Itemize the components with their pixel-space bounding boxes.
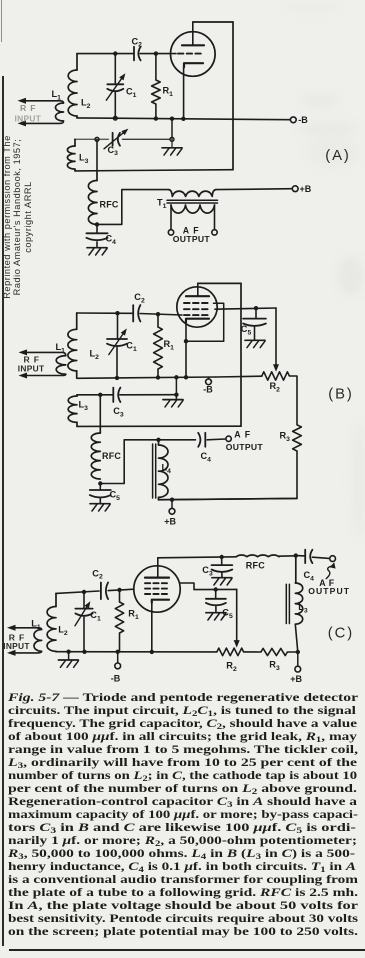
node C1 top (A)	[113, 51, 117, 55]
node C3row-junction (B)	[98, 393, 102, 397]
node C1 bottom (C)	[82, 650, 86, 654]
svg-text:RFC: RFC	[100, 200, 119, 210]
arrowhead RF top (C)	[7, 625, 16, 631]
coil L2 (B)	[68, 329, 77, 371]
node cathode rail (C)	[150, 650, 154, 654]
capacitor C1 variable (A)	[107, 84, 123, 91]
capacitor C4 (A)	[86, 224, 107, 240]
svg-text:INPUT: INPUT	[3, 641, 30, 651]
wire ground rail A	[77, 118, 290, 120]
label L1 (A)	[52, 89, 62, 101]
svg-text:-B: -B	[203, 384, 213, 394]
node +B stub (B)	[170, 498, 174, 502]
svg-text:-B: -B	[298, 115, 308, 125]
pentode tube V3 (circuit C) envelope	[134, 566, 180, 612]
wire L4 bottom row (B)	[159, 498, 298, 499]
label -B (C)	[111, 673, 121, 683]
wire ground rail B	[77, 376, 262, 378]
wire plate drop B	[240, 283, 242, 426]
ground below screen C5 (B)	[245, 327, 265, 348]
label (B)	[328, 386, 353, 402]
wire C1 bottom lead (C)	[83, 617, 85, 652]
pentode V2 screen (dashed)	[184, 308, 211, 310]
svg-text:R2: R2	[226, 661, 237, 673]
wire ground rail C	[56, 651, 217, 653]
label C4 (B)	[201, 451, 212, 463]
label C1 (B)	[126, 341, 137, 353]
pentode V3 plate lead	[157, 558, 159, 578]
arrowhead R2 wiper (B)	[273, 364, 279, 372]
svg-text:A: A	[234, 430, 241, 440]
svg-text:OUTPUT: OUTPUT	[173, 234, 211, 244]
resistor R1 (C)	[115, 602, 123, 633]
svg-text:R3: R3	[280, 431, 291, 443]
svg-text:L3: L3	[79, 400, 89, 412]
terminal AF output right (A)	[212, 230, 217, 235]
arrow of C1 (A)	[106, 73, 125, 100]
label INPUT (A)	[15, 114, 42, 124]
terminal +B (A)	[292, 186, 298, 192]
label +B (A)	[300, 184, 312, 194]
capacitor C4 (B)	[198, 433, 205, 447]
ground chassis (A right)	[162, 139, 182, 155]
node R1 top (B)	[156, 312, 160, 316]
pentode V2 plate	[186, 295, 209, 297]
svg-text:L2: L2	[58, 625, 68, 637]
transformer T1 primary (A)	[169, 190, 217, 197]
svg-text:C1: C1	[126, 87, 137, 99]
node RFC bottom (B)	[98, 481, 102, 485]
label RFC (C)	[246, 560, 265, 570]
svg-text:RFC: RFC	[102, 451, 121, 461]
node C5 top (C)	[214, 587, 218, 591]
wire R2 wiper drop (B)	[275, 308, 277, 367]
node C3 row gnd junction (B)	[174, 393, 178, 397]
label OUTPUT (C)	[308, 586, 350, 596]
wire cathode drop A	[183, 67, 185, 119]
node ring C3 row right (A)	[170, 137, 174, 141]
wire C1 lead (A)	[114, 54, 116, 85]
label RFC (B)	[102, 451, 121, 461]
ground chassis (B mid)	[163, 395, 183, 407]
arrow of C1 (B)	[109, 328, 127, 354]
wire grid row B	[77, 313, 182, 315]
wire R1 top lead (A)	[155, 54, 157, 80]
wire R1 bottom lead (C)	[119, 633, 121, 652]
label OUTPUT (A)	[173, 234, 211, 244]
scan smudge top right	[298, 121, 360, 137]
arrowhead RF bottom (C)	[7, 650, 16, 656]
wire R1 bottom lead (A)	[155, 104, 157, 119]
svg-text:C5: C5	[222, 608, 233, 620]
coil L2 (C) bottom lead	[55, 650, 57, 652]
wire RF input top (C)	[15, 628, 42, 630]
pentode V3 suppressor (dashed)	[145, 582, 170, 584]
svg-text:C1: C1	[126, 341, 137, 353]
wire RF input top (B)	[27, 352, 66, 355]
triode tube V1 (circuit A) envelope	[171, 32, 216, 77]
capacitor C5 screen bypass (B)	[243, 308, 266, 326]
node gnd stub (B)	[174, 375, 178, 379]
label L1 (C)	[31, 619, 41, 631]
svg-text:+B: +B	[290, 674, 302, 684]
pentode V3 screen (dashed)	[145, 588, 170, 590]
wire plate drop A	[232, 22, 234, 170]
coil L3 (A)	[67, 146, 75, 169]
svg-text:F: F	[245, 430, 251, 440]
potentiometer R2 (B)	[262, 372, 290, 380]
coil L2 (B) top lead	[76, 313, 78, 329]
wire stub rail to gnd (B)	[175, 377, 177, 394]
node R1 top (C)	[117, 588, 121, 592]
resistor R3 (B)	[293, 425, 302, 451]
wire C1 bottom lead (A)	[114, 92, 116, 118]
wire to +B (A)	[216, 188, 292, 191]
label OUTPUT (B)	[226, 442, 264, 452]
resistor R3 (C)	[261, 648, 288, 655]
node C4-L3 junction (C)	[294, 553, 298, 557]
wire C1 bottom lead (B)	[116, 348, 118, 378]
label -B (B)	[203, 384, 213, 394]
resistor R1 (A)	[152, 80, 161, 104]
wire +B stub (B)	[171, 500, 173, 509]
wire RFC to T1 (A)	[97, 190, 169, 225]
choke RFC (B)	[91, 433, 100, 479]
wire C4 plate lead (C)	[296, 555, 305, 557]
label L1 (B)	[56, 342, 66, 354]
arrowhead R2 wiper (C)	[234, 640, 240, 648]
choke RFC (A) top lead	[96, 171, 98, 181]
wire plate top run A	[193, 21, 233, 23]
pentode V2 plate lead	[197, 283, 199, 296]
scan black bottom edge bar	[8, 949, 365, 952]
coil L1 (A)	[56, 103, 64, 121]
wire R1 top lead (B)	[157, 314, 159, 327]
svg-text:INPUT: INPUT	[18, 364, 45, 374]
label L2 (B)	[90, 349, 100, 361]
label T1 (A)	[157, 198, 167, 210]
label L3 (C)	[298, 602, 308, 614]
svg-text:C3: C3	[108, 145, 119, 157]
coil L2 (C)	[47, 607, 56, 652]
scan mark top left corner	[1, 0, 2, 42]
arrowhead RF top (B)	[19, 349, 28, 355]
wire grid row C	[56, 589, 134, 593]
wire plate row B	[77, 425, 241, 427]
node C3 top (C)	[220, 555, 224, 559]
capacitor C3 variable (A)	[113, 133, 120, 146]
wire plate row A	[75, 170, 233, 171]
terminal +B (C)	[295, 666, 301, 672]
svg-text:(A): (A)	[325, 148, 350, 164]
node RFC bottom (A)	[95, 222, 99, 226]
label R3 (B)	[280, 431, 291, 443]
label C3 (B)	[113, 406, 124, 418]
terminal -B (A)	[290, 117, 296, 123]
label R1 (C)	[128, 609, 139, 621]
node hop ring C3 row (A)	[95, 137, 99, 141]
label INPUT (C)	[3, 641, 30, 651]
svg-text:C3: C3	[202, 565, 213, 577]
pentode V3 grid (dashed)	[145, 593, 170, 595]
wire screen row C	[180, 583, 237, 590]
label A F (B)	[234, 430, 251, 440]
ground below C4 (A)	[87, 242, 107, 255]
capacitor C5 (C)	[206, 590, 226, 606]
svg-text:L2: L2	[81, 98, 91, 110]
coil L3 (B) bottom lead	[76, 422, 78, 426]
wire C1 lead (B)	[117, 313, 119, 339]
triode V1 plate lead	[192, 22, 194, 45]
svg-text:C3: C3	[113, 406, 124, 418]
pentode tube V2 (circuit B) envelope	[177, 287, 217, 327]
label A F (A)	[183, 226, 200, 236]
wire R2-R3 (C)	[244, 651, 261, 653]
svg-text:R F: R F	[20, 103, 36, 113]
label C3 (A)	[108, 145, 119, 157]
label L3 (B)	[79, 400, 89, 412]
node rail-stub (A)	[170, 117, 174, 121]
wire C3 row (B)	[77, 394, 176, 396]
svg-text:L4: L4	[162, 463, 172, 475]
capacitor C1 variable (C)	[75, 609, 92, 616]
wire R3 bottom corner (B)	[159, 451, 298, 500]
svg-text:C4: C4	[106, 234, 117, 246]
label C4 (C)	[304, 570, 315, 582]
wire T1 secondary right lead (A)	[214, 205, 216, 230]
choke RFC (B) top lead	[99, 426, 101, 433]
wire R1 bottom lead (B)	[157, 369, 159, 377]
ground chassis (C)	[58, 652, 78, 668]
terminal AF output (B)	[226, 436, 231, 441]
arrowhead RF bottom (A)	[18, 120, 27, 126]
node C1 bottom (B)	[115, 376, 119, 380]
label R1 (A)	[163, 86, 174, 98]
coil L1 (C)	[34, 630, 42, 652]
wire T1 secondary left lead (A)	[170, 205, 172, 230]
node R1 bottom (B)	[156, 375, 160, 379]
scan black edge line left	[2, 76, 4, 946]
capacitor C2 (A)	[134, 47, 141, 61]
wire C3row-to-platerow vertical (B)	[99, 395, 101, 427]
capacitor C3 (B)	[113, 388, 120, 402]
choke L4 core (B)	[153, 444, 156, 498]
pentode V3 cathode	[152, 600, 169, 603]
svg-text:L2: L2	[90, 349, 100, 361]
capacitor C4 (C)	[305, 550, 312, 563]
svg-text:C2: C2	[134, 292, 145, 304]
label R1 (B)	[164, 339, 175, 351]
wire C1 lead (C)	[83, 592, 85, 609]
choke L3 (C) top lead	[295, 556, 297, 583]
ground below C3 (C)	[212, 573, 232, 585]
choke L3 (C)	[295, 583, 302, 624]
arrow of C3 (A)	[104, 129, 128, 149]
coil L3 (B) top lead	[76, 395, 78, 396]
coil L2 (A) bottom lead	[76, 116, 78, 118]
transformer T1 secondary (A)	[171, 205, 215, 213]
wire +B stub (C)	[297, 652, 299, 666]
terminal -B (C)	[115, 663, 121, 669]
label RFC (A)	[100, 200, 119, 210]
svg-text:C4: C4	[201, 451, 212, 463]
terminal AF output left (A)	[168, 230, 173, 235]
svg-text:INPUT: INPUT	[15, 114, 42, 124]
svg-text:L3: L3	[79, 153, 89, 165]
svg-text:OUTPUT: OUTPUT	[308, 586, 350, 596]
capacitor C3 (C)	[212, 557, 233, 572]
coil L3 (B)	[68, 396, 77, 422]
node C5 top B	[254, 306, 258, 310]
coil L2 (B) bottom lead	[76, 371, 78, 378]
choke L3 core (C)	[286, 584, 289, 623]
squiggle arrow at AF out (C)	[326, 562, 335, 578]
wire -B stub (C)	[117, 652, 119, 663]
label C1 (C)	[90, 610, 101, 622]
node cathode rail (B)	[184, 375, 188, 379]
label L3 (A)	[79, 153, 89, 165]
triode V1 plate	[182, 44, 204, 46]
label -B (A)	[298, 115, 308, 125]
node C1 top (B)	[115, 311, 119, 315]
wire RF input bottom (C)	[15, 651, 42, 653]
node R1 top (A)	[154, 51, 158, 55]
label L2 (C)	[58, 625, 68, 637]
node C1 bottom (A)	[113, 116, 117, 120]
pentode V3 plate	[145, 576, 169, 578]
wire C3 row (A)	[75, 138, 171, 140]
wire RF input bottom (A)	[26, 121, 64, 123]
capacitor C1 variable (B)	[107, 339, 127, 346]
label C2 (C)	[92, 568, 103, 580]
arrow of C1 (C)	[75, 601, 90, 626]
coil L3 (A) top lead	[74, 139, 76, 146]
terminal +B (B)	[169, 508, 175, 514]
wire stub rail to C3 row (A)	[171, 119, 173, 140]
label +B (C)	[290, 674, 302, 684]
label INPUT (B)	[18, 364, 45, 374]
label L2 (A)	[81, 98, 91, 110]
label R3 (C)	[269, 660, 280, 672]
wire -B stub (B)	[208, 377, 210, 379]
terminal AF output (C)	[330, 556, 336, 562]
label R F (C)	[9, 632, 25, 642]
svg-text:C2: C2	[132, 36, 143, 48]
triode V1 cathode	[184, 63, 203, 67]
wire RF input top (A)	[26, 101, 64, 103]
wire RF input bottom (B)	[27, 374, 66, 375]
svg-text:OUTPUT: OUTPUT	[226, 442, 264, 452]
label C2 (B)	[134, 292, 145, 304]
arrowhead RF bottom (B)	[19, 373, 28, 379]
svg-text:-B: -B	[111, 673, 121, 683]
transformer T1 core (A)	[167, 200, 218, 203]
node R1 bottom (A)	[154, 116, 158, 120]
svg-text:R3: R3	[269, 660, 280, 672]
label C5 rfc (B)	[110, 490, 121, 502]
label L4 (B)	[162, 463, 172, 475]
node cathode rail (A)	[181, 117, 185, 121]
pentode V2 suppressor (dashed)	[184, 302, 211, 304]
pentode V2 cathode	[186, 319, 209, 322]
capacitor C2 (B)	[133, 305, 140, 321]
node C1 top (C)	[82, 590, 86, 594]
wire screen run B	[215, 308, 276, 309]
rotated credit text	[2, 132, 36, 302]
wire suppressor tie B	[186, 303, 224, 341]
label C2 (A)	[132, 36, 143, 48]
potentiometer R2 (C)	[217, 648, 244, 656]
node L4 top (B)	[156, 438, 160, 442]
svg-text:C2: C2	[92, 568, 103, 580]
svg-text:R2: R2	[270, 381, 281, 393]
choke L3 bottom lead (C)	[295, 624, 298, 652]
label C3 (C)	[202, 565, 213, 577]
coil L3 (A) bottom lead	[74, 169, 76, 171]
label (A)	[325, 148, 350, 164]
label R F (A)	[20, 103, 36, 113]
wire plate top run B	[198, 282, 241, 284]
coil L2 (A)	[68, 70, 77, 116]
capacitor C5 rfc bypass (B)	[90, 484, 111, 498]
svg-text:T1: T1	[157, 198, 167, 210]
label (C)	[328, 625, 354, 641]
label R F (B)	[24, 354, 40, 364]
ground below C5 (C)	[206, 606, 226, 620]
label C4 (A)	[106, 234, 117, 246]
svg-text:C1: C1	[90, 610, 101, 622]
wire grid row A	[77, 53, 176, 55]
svg-text:(C): (C)	[328, 625, 354, 641]
capacitor C2 (C)	[101, 583, 108, 600]
node R1 bottom -B (C)	[116, 650, 120, 654]
svg-text:L1: L1	[31, 619, 41, 631]
wire C3row-to-platerow vertical (A)	[96, 139, 98, 171]
svg-text:C5: C5	[110, 490, 121, 502]
wire R3 to +B node (C)	[287, 651, 297, 653]
coil L2 (C) top lead	[55, 593, 57, 606]
svg-text:RFC: RFC	[246, 560, 265, 570]
wire cathode drop B	[185, 321, 187, 377]
wire R1 top lead (C)	[119, 590, 121, 602]
pentode V2 grid (dashed)	[184, 314, 211, 316]
svg-text:R1: R1	[164, 339, 175, 351]
svg-text:+B: +B	[300, 184, 312, 194]
svg-text:C4: C4	[304, 570, 315, 582]
label C5 screen (B)	[241, 324, 252, 336]
label C1 (A)	[126, 87, 137, 99]
label C5 (C)	[222, 608, 233, 620]
ground below C5 (B)	[90, 498, 110, 511]
wire C4 to AF out (B)	[207, 438, 225, 441]
terminal -B (B)	[206, 379, 212, 385]
wire RFC to L4 row (B)	[100, 440, 195, 484]
choke RFC (A)	[88, 181, 97, 225]
triode V1 grid (dashed)	[178, 53, 204, 55]
node gnd stub (C)	[66, 650, 70, 654]
coil L2 (A) top lead	[76, 54, 78, 70]
wire cathode drop C	[151, 603, 153, 652]
wire R2 wiper drop (C)	[236, 589, 238, 642]
arrowhead RF top (A)	[18, 98, 27, 104]
wire plate row C	[158, 556, 296, 558]
choke RFC (C)	[236, 555, 279, 557]
label R2 (C)	[226, 661, 237, 673]
svg-text:(B): (B)	[328, 386, 353, 402]
wire R2 to R3 corner (B)	[289, 376, 297, 425]
svg-text:L1: L1	[52, 89, 62, 101]
node L3 bottom +B (C)	[296, 650, 300, 654]
